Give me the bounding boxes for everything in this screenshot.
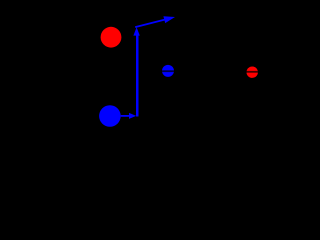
small blue particle (middle level) (162, 65, 174, 77)
big blue particle (lower level) (99, 105, 121, 127)
diagonal arrow pointing up-right (135, 16, 175, 28)
big red particle (upper level) (101, 27, 122, 48)
vertical arrow pointing up (133, 27, 139, 116)
level line crossing small red particle (244, 71, 261, 73)
horizontal arrow from blue particle to vertical arrow base (121, 113, 137, 119)
level line crossing small blue particle (160, 70, 176, 72)
small red particle (right level) (247, 67, 258, 78)
